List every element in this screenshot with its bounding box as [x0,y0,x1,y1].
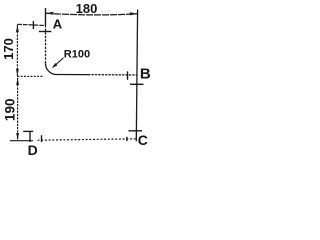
svg-text:C: C [138,132,148,148]
svg-text:190: 190 [2,99,17,122]
svg-text:A: A [53,17,63,32]
svg-text:B: B [140,65,151,82]
svg-text:R100: R100 [64,48,90,60]
svg-text:D: D [28,142,38,158]
svg-text:170: 170 [1,38,16,60]
svg-text:180: 180 [76,1,98,16]
